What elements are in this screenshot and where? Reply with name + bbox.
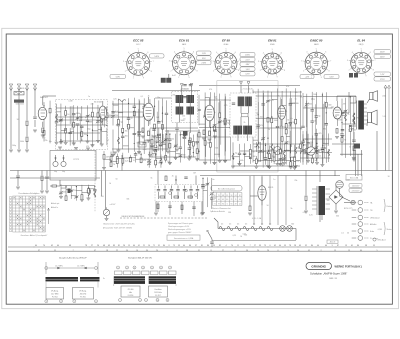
coil: [267, 150, 269, 157]
voltage box 110: [349, 184, 362, 188]
callout column between EF89 and EM81: [240, 53, 255, 57]
coil: [230, 124, 232, 131]
junction dot: [256, 146, 257, 147]
ground symbol: [267, 166, 271, 168]
wire R40: [50, 185, 52, 187]
svg-text:Erde: Erde: [370, 230, 374, 233]
svg-text:8p: 8p: [215, 98, 217, 100]
svg-text:Nachgleich AM-ZF 460 kHz: Nachgleich AM-ZF 460 kHz: [128, 256, 152, 259]
resistor: [133, 111, 135, 116]
wire link: [61, 187, 66, 189]
svg-text:6,3: 6,3: [237, 224, 239, 226]
callout right of ECC85: [150, 54, 165, 58]
svg-text:0,5M: 0,5M: [147, 119, 151, 121]
wire horizontal bus: [112, 148, 168, 150]
AF network resistor 2: [174, 196, 179, 198]
resistor: [110, 162, 112, 167]
svg-text:470: 470: [260, 125, 263, 127]
svg-text:30k: 30k: [125, 130, 128, 132]
svg-text:4: 4: [128, 52, 129, 54]
resistor R50: [249, 206, 251, 211]
ground choke: [304, 211, 308, 213]
svg-text:6: 6: [227, 204, 228, 206]
svg-text:Skalenl.: Skalenl.: [387, 229, 394, 231]
svg-text:110/125V: 110/125V: [352, 186, 360, 188]
coil: [94, 191, 96, 198]
Tr1 secondary ticks: [326, 189, 331, 209]
svg-text:30k: 30k: [309, 103, 312, 105]
svg-text:70: 70: [252, 151, 254, 153]
svg-text:50: 50: [17, 119, 19, 121]
coil: [230, 117, 232, 124]
ground symbol: [137, 152, 141, 154]
ground symbol: [64, 142, 68, 144]
ground symbol: [195, 159, 199, 161]
wire vertical: [294, 145, 296, 167]
FM tuner dashed enclosure: [56, 100, 108, 150]
padder trimmer 1: [156, 140, 160, 143]
svg-text:Netz 0,8A: Netz 0,8A: [350, 177, 359, 180]
total current box: [167, 235, 200, 240]
svg-text:1n: 1n: [273, 179, 275, 181]
coil: [283, 150, 285, 157]
wire link: [156, 136, 161, 138]
dial lamp La2: [287, 226, 293, 232]
svg-text:7: 7: [120, 300, 121, 302]
svg-text:FL 855: FL 855: [80, 296, 86, 298]
resistor: [122, 159, 124, 164]
ground V1a: [41, 135, 45, 137]
tube V6 EL84 symbol: [333, 101, 341, 126]
wire vertical: [289, 91, 291, 127]
trimmer capacitor: [218, 120, 222, 123]
resistor: [117, 119, 119, 124]
svg-text:10n: 10n: [49, 141, 52, 143]
svg-text:100p: 100p: [295, 161, 299, 163]
left capacitor C42: [16, 176, 19, 177]
wire horizontal bus: [150, 156, 196, 158]
wire vertical: [69, 106, 71, 124]
ground antenna 4: [17, 150, 21, 152]
svg-text:Bv 4508: Bv 4508: [94, 102, 102, 104]
junction dot: [110, 161, 111, 162]
alignment block B bottom circles: [119, 299, 170, 303]
wire link: [253, 139, 258, 141]
right rail wire 3: [376, 131, 378, 171]
wire link: [129, 127, 135, 129]
resistor: [311, 158, 313, 163]
svg-text:6: 6: [96, 301, 97, 303]
resistor: [87, 189, 89, 194]
capacitor: [238, 153, 241, 154]
connector socket UKW-Dipol: [352, 215, 369, 220]
junction dot: [154, 106, 155, 107]
ground symbol: [59, 142, 63, 144]
resistor: [224, 119, 226, 124]
svg-text:0,25: 0,25: [303, 212, 307, 214]
resistor: [285, 129, 287, 134]
coil: [295, 147, 297, 154]
capacitor: [159, 145, 162, 146]
AF network capacitor 6: [189, 190, 192, 191]
scattered value annotations: [12, 86, 390, 238]
svg-text:8: 8: [238, 70, 239, 72]
Werte table grid: [213, 193, 242, 206]
heater return wire: [212, 240, 296, 242]
capacitor: [86, 120, 89, 121]
resistor: [81, 132, 83, 137]
GRUNDIG logo oval: [306, 263, 332, 270]
svg-text:71: 71: [214, 204, 216, 206]
junction dot: [326, 112, 327, 113]
alignment block A bar 2: [80, 277, 100, 281]
svg-text:Batterie-Betrieb: Batterie-Betrieb: [212, 210, 225, 213]
AF network capacitor 2: [163, 190, 166, 191]
wire vertical: [204, 92, 206, 161]
antenna lead wires: [10, 87, 12, 149]
svg-text:11: 11: [235, 199, 237, 201]
IF1 core adjust arrows: [180, 84, 193, 87]
junction dot: [193, 152, 194, 153]
ground symbol: [90, 145, 94, 147]
wire vertical: [155, 154, 157, 168]
wire vertical: [81, 185, 83, 199]
dark box pair below EL84 socket: [349, 73, 358, 78]
ground symbol: [289, 167, 293, 169]
svg-text:EF 89: EF 89: [222, 39, 230, 43]
resistor: [255, 159, 257, 164]
resistor: [140, 158, 142, 163]
resistor: [249, 149, 251, 154]
svg-text:94: 94: [230, 204, 232, 206]
svg-text:+7 100-10 28: +7 100-10 28: [242, 88, 253, 90]
AF lower cap 1: [168, 206, 171, 207]
wire FM grid 1: [34, 120, 36, 127]
tweeter speaker LS2: [370, 91, 378, 102]
tube V1a ECC85 triode: [38, 100, 47, 127]
svg-text:Gesamtstrom ca. 0,33A: Gesamtstrom ca. 0,33A: [174, 237, 194, 240]
svg-text:Bv 4507: Bv 4507: [40, 97, 48, 99]
capacitor: [201, 185, 204, 186]
wire vertical: [73, 105, 75, 142]
svg-text:Ansicht: Ansicht: [330, 241, 336, 244]
heater capacitor C50: [210, 242, 213, 243]
right rail terminal arrows: [384, 85, 391, 88]
mains drop 3: [334, 171, 336, 177]
tube V1b ECC85 triode: [99, 101, 107, 125]
ground antenna 3: [9, 150, 13, 152]
coil: [149, 113, 151, 120]
svg-text:8: 8: [329, 70, 330, 72]
wire vertical: [213, 93, 215, 163]
tube V5 EABC80 symbol: [278, 99, 286, 126]
tone potentiometer P2: [103, 207, 109, 220]
wire horizontal bus: [199, 159, 231, 161]
junction dot: [271, 116, 272, 117]
svg-text:2k: 2k: [360, 192, 362, 194]
wire vertical: [43, 102, 45, 141]
resistor: [306, 148, 308, 153]
wire link: [282, 104, 286, 106]
wire connector top: [344, 202, 352, 204]
wire horizontal bus: [108, 116, 143, 118]
wire horizontal bus: [150, 127, 198, 129]
svg-text:470: 470: [323, 128, 326, 130]
wire vertical: [209, 92, 211, 164]
svg-text:5: 5: [226, 49, 227, 51]
capacitor: [301, 126, 304, 127]
tube V3 EF89 symbol: [205, 98, 215, 127]
terminal strip numbers lower: [38, 250, 379, 252]
svg-text:Ablauf Ia: Ablauf Ia: [51, 206, 58, 209]
svg-text:8p: 8p: [318, 115, 320, 117]
wire vertical: [160, 154, 162, 167]
svg-text:0,6V: 0,6V: [329, 77, 334, 79]
junction dot: [322, 145, 323, 146]
voltages note text: [168, 223, 194, 234]
wire right v1: [355, 150, 357, 176]
capacitor: [301, 150, 304, 151]
wire vertical: [349, 96, 351, 124]
coil L4: [118, 100, 126, 102]
svg-text:240Ω: 240Ω: [20, 88, 25, 90]
svg-text:9: 9: [366, 76, 367, 78]
svg-text:470: 470: [91, 104, 94, 106]
capacitor: [157, 122, 160, 123]
svg-text:24: 24: [235, 195, 237, 197]
trimmer capacitor: [96, 120, 100, 123]
tube socket ECC 85: [123, 39, 154, 80]
svg-text:470: 470: [318, 133, 321, 135]
wire horizontal bus: [60, 185, 95, 187]
AF network resistor 3: [188, 196, 193, 198]
svg-text:10,7 MHz: 10,7 MHz: [77, 265, 85, 267]
antenna coupling coil L2: [14, 100, 24, 103]
wire vertical: [149, 99, 151, 124]
capacitor: [315, 134, 318, 135]
wire vertical: [307, 134, 309, 161]
svg-text:2,1V: 2,1V: [245, 59, 250, 61]
matrix row tabs: [9, 197, 11, 232]
trimmer capacitor: [174, 144, 178, 147]
wire vertical: [202, 177, 204, 212]
wire FM grid 2: [26, 126, 28, 136]
wire x122 drop: [121, 155, 123, 171]
output transformer lamination line: [356, 101, 358, 130]
svg-text:ZF-Ausg.: ZF-Ausg.: [79, 289, 87, 292]
svg-text:9: 9: [277, 76, 278, 78]
ground symbol: [187, 158, 191, 160]
capacitor: [289, 123, 292, 124]
tube socket ECH 81: [169, 39, 200, 80]
antenna terminal arrows: [9, 84, 37, 91]
capacitor: [349, 130, 352, 131]
junction dot: [94, 186, 95, 187]
svg-text:30k: 30k: [215, 148, 218, 150]
wire vertical: [206, 177, 208, 207]
trimmer capacitor: [210, 192, 214, 195]
svg-text:5: 5: [74, 301, 75, 303]
screen resistor R17: [203, 130, 205, 135]
wire vertical: [122, 153, 124, 166]
svg-text:BELEUCHTUNGSANZEIGE: BELEUCHTUNGSANZEIGE: [122, 215, 145, 218]
svg-text:172V: 172V: [380, 79, 385, 81]
wire link: [136, 158, 142, 160]
alignment block B bar 1: [114, 276, 145, 284]
svg-text:0,9V: 0,9V: [245, 74, 250, 76]
volume potentiometer P1: [307, 143, 315, 155]
svg-text:0,25: 0,25: [113, 99, 117, 101]
wire vertical: [244, 143, 246, 166]
svg-text:1620 kHz: 1620 kHz: [154, 292, 162, 294]
trimmer capacitor: [59, 118, 63, 121]
heater filament 5: [251, 226, 257, 230]
wire vertical: [169, 133, 171, 162]
svg-text:470: 470: [143, 160, 146, 162]
wire vertical: [101, 106, 103, 123]
wire vertical: [325, 92, 327, 163]
junction dot: [290, 124, 291, 125]
svg-text:4: 4: [306, 52, 307, 54]
coil: [160, 158, 162, 165]
bus wire left stub: [10, 177, 100, 179]
heater filament 1: [219, 226, 225, 230]
capacitor: [301, 141, 304, 142]
junction dot: [180, 134, 181, 135]
wire vertical: [311, 135, 313, 164]
trimmer capacitor: [212, 124, 216, 127]
block A connecting lines: [45, 281, 47, 287]
junction dot: [155, 153, 156, 154]
resistor: [325, 102, 327, 107]
coil: [353, 117, 355, 124]
wire vertical: [285, 88, 287, 164]
wire vertical: [106, 106, 108, 123]
svg-text:12k: 12k: [277, 96, 280, 98]
wire link: [118, 112, 122, 114]
svg-text:1n: 1n: [312, 158, 314, 160]
cathode resistor R3: [42, 128, 44, 133]
resistor: [349, 125, 351, 130]
supplementary bus wires: [56, 92, 356, 153]
wire vertical: [128, 98, 130, 153]
wire horizontal bus: [254, 117, 278, 119]
svg-text:150: 150: [66, 114, 69, 116]
wire vertical: [290, 144, 292, 153]
wire horizontal bus: [112, 90, 200, 92]
svg-text:50: 50: [388, 176, 390, 178]
trimmer capacitor: [147, 162, 151, 165]
svg-text:44: 44: [218, 199, 220, 201]
bus wire second: [200, 175, 340, 177]
rectifier cluster left: [40, 171, 49, 194]
svg-text:6,3: 6,3: [229, 224, 231, 226]
junction dot: [122, 132, 123, 133]
junction dot: [65, 186, 66, 187]
wire link: [245, 155, 251, 157]
IF1 coil winding 4: [186, 107, 194, 115]
junction dot: [312, 98, 313, 99]
svg-text:0,25: 0,25: [233, 235, 237, 237]
wire link: [170, 150, 176, 152]
wire R36: [353, 132, 355, 139]
capacitor: [321, 148, 324, 149]
wire plate to OT: [336, 96, 338, 101]
wire vertical: [344, 98, 346, 158]
oscillator coil L5: [138, 142, 146, 147]
capacitor: [256, 125, 259, 126]
wire vertical: [198, 95, 200, 126]
ground symbol: [218, 161, 222, 163]
wire vertical: [148, 152, 150, 168]
svg-text:EABC 80: EABC 80: [310, 39, 323, 43]
capacitor: [188, 148, 191, 149]
svg-text:6: 6: [281, 53, 282, 55]
label V6 wire: [342, 112, 350, 114]
wire vertical: [281, 91, 283, 166]
capacitor: [137, 131, 140, 132]
coil: [155, 145, 157, 152]
svg-text:Bei U-Betrieb geänd.: Bei U-Betrieb geänd.: [218, 188, 236, 191]
svg-text:5: 5: [272, 49, 273, 51]
svg-text:Ev47: Ev47: [172, 75, 176, 77]
svg-text:65: 65: [222, 199, 224, 201]
svg-text:2: 2: [349, 70, 350, 72]
svg-text:150: 150: [260, 117, 263, 119]
svg-text:5k: 5k: [291, 208, 293, 210]
svg-text:8: 8: [151, 71, 152, 73]
svg-text:6DA6: 6DA6: [224, 43, 229, 46]
trimmer capacitor: [69, 189, 73, 192]
resistor: [97, 113, 99, 118]
trimmer capacitor: [284, 141, 288, 144]
svg-text:300: 300: [293, 157, 296, 159]
heater feed drops: [254, 176, 286, 226]
junction dot: [316, 143, 317, 144]
svg-text:3: 3: [258, 61, 259, 63]
wire vertical: [315, 92, 317, 125]
wires speakers: [367, 99, 370, 103]
ground C16: [213, 136, 217, 138]
junction dot: [250, 157, 251, 158]
svg-text:18: 18: [230, 195, 232, 197]
ground antenna 2: [33, 130, 37, 132]
svg-text:500k: 500k: [16, 103, 20, 105]
wire link: [102, 131, 107, 133]
wire vertical: [224, 94, 226, 125]
junction dot: [65, 129, 66, 130]
tube socket EL 84: [347, 39, 376, 78]
wire link: [82, 191, 88, 193]
svg-text:3: 3: [347, 60, 348, 62]
junction dot: [210, 127, 211, 128]
svg-text:1088 / 55: 1088 / 55: [329, 278, 338, 280]
svg-text:3: 3: [301, 60, 302, 62]
svg-text:5p: 5p: [297, 148, 299, 150]
capacitor: [276, 126, 279, 127]
svg-text:150: 150: [228, 212, 231, 214]
speaker LS1: [368, 110, 378, 125]
wire vertical: [65, 185, 67, 199]
wire link: [111, 161, 117, 163]
svg-text:5p: 5p: [120, 121, 122, 123]
wire link: [130, 157, 135, 159]
resistor: [252, 111, 254, 116]
wire vertical: [192, 135, 194, 158]
svg-text:12k: 12k: [182, 115, 185, 117]
coil: [344, 114, 346, 121]
svg-text:470: 470: [209, 89, 212, 91]
